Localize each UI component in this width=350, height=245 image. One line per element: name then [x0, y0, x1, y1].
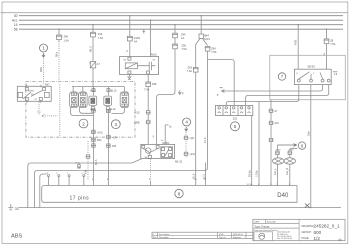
- inline connector K10/1: [147, 111, 150, 114]
- bus 30: [19, 15, 343, 17]
- relay Re10 capacitor: [138, 62, 156, 70]
- wire dotted below fuse Z96: [58, 42, 61, 137]
- wire comb to D40 pin 4: [258, 102, 260, 182]
- inline connector Q6: [184, 136, 187, 139]
- svg-text:9/1.5: 9/1.5: [88, 46, 92, 52]
- svg-text:+D50: +D50: [275, 150, 281, 152]
- svg-text:3: 3: [115, 122, 118, 127]
- lamp D60: [284, 158, 295, 164]
- relay K7 pin squares top: [25, 88, 28, 91]
- svg-text:30: 30: [14, 14, 18, 18]
- svg-text:Fax +31 412 66 90: Fax +31 412 66 90: [277, 238, 292, 240]
- svg-text:+D60: +D60: [288, 150, 294, 152]
- svg-text:Re8/1: Re8/1: [163, 141, 170, 145]
- reference arrow P at corner: [178, 90, 181, 94]
- relay Re10 coil: [125, 63, 137, 69]
- title block outer box: [253, 219, 345, 240]
- fuse Z56: [173, 44, 178, 49]
- svg-text:ABS: ABS: [11, 234, 22, 240]
- bulb EL4: [92, 89, 95, 92]
- svg-text:Z56: Z56: [181, 44, 186, 48]
- relay K7 pin stubs: [27, 85, 41, 103]
- svg-text:First release: First release: [159, 233, 169, 236]
- junction dot ground bus: [310, 207, 311, 208]
- inline connector 240B: [147, 120, 150, 123]
- svg-text:7.5A: 7.5A: [187, 69, 193, 73]
- svg-text:GROUP:: GROUP:: [302, 230, 313, 234]
- svg-text:232: 232: [233, 116, 238, 120]
- fuse Z36: [147, 74, 149, 82]
- svg-text:Replaces: Replaces: [233, 237, 241, 239]
- svg-text:87: 87: [35, 99, 38, 101]
- svg-text:17 pins: 17 pins: [70, 195, 90, 201]
- svg-text:15: 15: [14, 23, 18, 27]
- inline connector A7b: [269, 109, 272, 112]
- svg-text:2: 2: [82, 121, 85, 126]
- svg-text:+EL10: +EL10: [110, 89, 118, 92]
- node 2 (circled): [79, 119, 88, 128]
- module box (control unit): [141, 144, 175, 158]
- relay Re10 bottom pin squares: [128, 71, 131, 74]
- wire lamp D60 to D40 pin 3: [289, 164, 291, 181]
- title block row line 1: [253, 223, 299, 225]
- small terminal symbol above pin C: [78, 164, 81, 167]
- wire bus15 to switch SK33: [297, 25, 299, 69]
- wire EL10 down: [107, 110, 109, 181]
- relay Re10 ground arrow: [128, 75, 132, 80]
- bus 58: [19, 28, 343, 30]
- switch SK33: [294, 69, 331, 84]
- svg-text:1/0.5s: 1/0.5s: [256, 170, 259, 177]
- harness terminal pins left group: [48, 175, 290, 186]
- relay K7 side connector squares: [18, 92, 23, 97]
- svg-text:Acc: Acc: [12, 19, 18, 23]
- wire Z63 to pin 10: [195, 72, 197, 181]
- relay group dash-dot enclosure: [26, 81, 135, 137]
- svg-text:Z36: Z36: [152, 82, 157, 86]
- svg-text:Cas_L: Cas_L: [275, 168, 277, 175]
- svg-text:PAGE:: PAGE:: [302, 236, 310, 240]
- bulb EL10: [107, 89, 110, 92]
- connector EL4/2: [79, 92, 88, 108]
- arrow below node 4: [185, 127, 188, 131]
- svg-text:+244: +244: [189, 153, 195, 156]
- relay Re8/1: [161, 147, 173, 158]
- svg-text:7: 7: [281, 74, 284, 79]
- svg-text:Z44: Z44: [181, 32, 186, 36]
- svg-text:31: 31: [15, 207, 19, 211]
- revision table column lines: [158, 232, 247, 238]
- junction dots on buses: [58, 29, 59, 30]
- dotted reference arrow horizontal: [42, 115, 58, 118]
- svg-text:B4A: B4A: [97, 139, 102, 142]
- fuse Z63: [195, 45, 197, 68]
- bus 15: [19, 24, 343, 26]
- svg-text:M1.5: M1.5: [204, 37, 210, 41]
- svg-text:240B: 240B: [134, 121, 140, 124]
- svg-text:+EL4: +EL4: [90, 89, 96, 92]
- svg-text:Re7: Re7: [45, 84, 50, 87]
- svg-text:P: P: [182, 93, 184, 96]
- svg-text:Z8: Z8: [330, 38, 334, 42]
- svg-text:600: 600: [314, 230, 322, 235]
- revision table box: [152, 232, 253, 238]
- ground bus wire: [19, 207, 342, 209]
- dotted branch wire x88: [87, 141, 89, 180]
- relay Re10: [120, 57, 159, 75]
- svg-text:Z63: Z63: [188, 65, 193, 69]
- wire from fuse Z33: [92, 39, 94, 62]
- svg-text:4A: 4A: [134, 39, 137, 43]
- inline connector K10: [92, 130, 95, 133]
- inline connector B4A: [92, 138, 95, 141]
- svg-text:5: 5: [234, 124, 237, 129]
- svg-text:D40: D40: [277, 193, 289, 199]
- cable bundle outline (17 pins harness): [42, 186, 297, 203]
- node 1 (circled): [40, 44, 48, 52]
- svg-text:Z96: Z96: [64, 35, 69, 39]
- switch group enclosure: [270, 55, 346, 99]
- svg-text:Z66: Z66: [112, 145, 117, 148]
- comb pin clips: [218, 107, 220, 109]
- dotted wire module to pin: [150, 159, 152, 181]
- svg-text:7.5A: 7.5A: [330, 42, 336, 46]
- wire from A7 to lamp feed: [92, 68, 94, 87]
- inline connector B20: [269, 138, 272, 141]
- svg-text:P: P: [217, 94, 219, 97]
- title block divider vertical: [298, 219, 300, 240]
- wire SK33 pin to comb right: [220, 85, 323, 93]
- wire Z36 down to module: [147, 87, 149, 145]
- inline connector A10: [269, 121, 272, 124]
- svg-text:2013-05-12: 2013-05-12: [233, 234, 243, 236]
- svg-text:+Q6: +Q6: [189, 137, 194, 140]
- svg-text:P/S1: P/S1: [294, 39, 298, 45]
- lamp feed stubs: [73, 87, 124, 96]
- splitter B44 branch diagonals: [196, 38, 208, 45]
- diode module A7: [90, 62, 95, 68]
- svg-text:+C6: +C6: [112, 137, 117, 140]
- svg-text:4: 4: [185, 120, 188, 125]
- arrow below node 1: [42, 53, 45, 57]
- bus Acc: [19, 19, 343, 21]
- inline connector C6: [107, 135, 110, 138]
- fuse Z64: [205, 47, 210, 52]
- arrow to node 6: [277, 144, 296, 147]
- svg-text:A10: A10: [274, 122, 279, 125]
- wire comb to D40 pin 12: [246, 85, 329, 181]
- relay K7 (left relay block): [17, 86, 51, 101]
- lamp D50 connector: [276, 151, 279, 154]
- splitter B44: [200, 16, 202, 34]
- wire module to left return: [28, 159, 142, 208]
- svg-text:Z33: Z33: [98, 32, 103, 36]
- svg-text:1,2,14: 1,2,14: [247, 184, 254, 186]
- svg-text:9/9a: 9/9a: [39, 66, 43, 72]
- svg-text:Description: Description: [159, 236, 168, 239]
- inline connector on EL4 wire: [92, 109, 95, 112]
- SK33 internal pins: [297, 79, 300, 82]
- relay Re10 top pin squares: [128, 57, 131, 60]
- svg-text:Z64: Z64: [211, 47, 216, 51]
- left margin tick: [1, 12, 5, 14]
- svg-text:DATE: DATE: [254, 221, 260, 224]
- svg-text:SK33: SK33: [308, 64, 316, 68]
- svg-text:1A: 1A: [181, 36, 184, 40]
- wires EL4 connectors down to bulb wire: [70, 108, 93, 116]
- svg-text:7.5A: 7.5A: [181, 47, 187, 51]
- svg-text:Z104: Z104: [134, 36, 140, 40]
- svg-text:A23-2366: A23-2366: [267, 221, 277, 224]
- relay K7 dotted pin arrow down: [38, 102, 41, 114]
- wire EL10/2 down: [111, 108, 124, 114]
- svg-text:7.5A: 7.5A: [98, 36, 104, 40]
- svg-text:8: 8: [178, 191, 181, 196]
- svg-text:9/1.5: 9/1.5: [95, 159, 98, 165]
- svg-text:S: S: [125, 50, 129, 52]
- wire lamp D60 up: [290, 148, 298, 158]
- svg-text:1: 1: [153, 234, 154, 236]
- title block row line 2: [253, 227, 299, 229]
- node 7 (circled): [278, 73, 285, 80]
- svg-text:+K10: +K10: [134, 112, 140, 115]
- svg-text:9: 9: [153, 136, 155, 139]
- inline connector extra on EL4 wire: [92, 144, 95, 147]
- svg-text:Type: Futura: Type: Futura: [254, 224, 270, 228]
- wire bus30 to fuse Z104: [129, 16, 131, 57]
- merge funnel with transistor: [143, 148, 158, 155]
- node 3 (circled): [111, 120, 120, 129]
- module stub pin 3x: [165, 125, 168, 144]
- fuse Z44: [174, 25, 176, 34]
- inner top margin line: [2, 12, 348, 14]
- connector EL4/1: [70, 92, 79, 108]
- wire pin 9: [205, 163, 207, 182]
- fuse Z8: [326, 29, 328, 39]
- revision table mid line: [152, 234, 253, 236]
- ground symbol 31: [8, 204, 13, 211]
- module top pin squares: [142, 145, 145, 148]
- wire busAcc to relay Re10: [143, 20, 151, 56]
- svg-text:7.4A: 7.4A: [144, 88, 150, 92]
- svg-text:11: 11: [204, 179, 207, 181]
- fuse Z104: [127, 36, 132, 41]
- svg-text:2/6s: 2/6s: [307, 131, 310, 136]
- lamp D60 connector: [288, 151, 291, 154]
- svg-text:Power train electrical Parts b: Power train electrical Parts bv: [254, 229, 278, 232]
- comb connector strip: [216, 105, 253, 115]
- inline connector B44b: [184, 152, 187, 155]
- junction dot lamp feed: [92, 86, 93, 87]
- connector EL10/2: [120, 92, 129, 108]
- dotted wire from node 4: [185, 132, 187, 159]
- fuse Z96: [58, 29, 60, 35]
- logo box: [254, 232, 273, 241]
- wire return to terminal: [40, 174, 47, 208]
- svg-text:1/2: 1/2: [314, 236, 321, 241]
- logo emblem: [259, 233, 265, 239]
- relay K7 pin squares bottom: [25, 97, 28, 100]
- svg-text:M1/12: M1/12: [175, 159, 183, 163]
- svg-text:1-9: 1-9: [334, 73, 338, 76]
- svg-text:a3: a3: [339, 238, 343, 242]
- svg-text:Proj. no: Proj. no: [219, 236, 226, 239]
- svg-text:9/0.5a: 9/0.5a: [248, 170, 251, 177]
- wire SK33 pin to comb left: [226, 85, 299, 106]
- relay K7 contact diagonals: [23, 91, 43, 99]
- svg-text:B44: B44: [204, 34, 209, 38]
- svg-text:Re10: Re10: [151, 54, 157, 57]
- wire dotted from node 1: [43, 59, 45, 85]
- svg-text:9/1a: 9/1a: [54, 51, 58, 57]
- wire EL4 down to connector D40: [92, 110, 94, 181]
- lamp D50: [273, 158, 284, 164]
- wire lamp D50 to D40 pin 1: [276, 164, 278, 181]
- wire Z64 across to comb connector: [208, 51, 235, 105]
- svg-text:Cas_R: Cas_R: [287, 168, 289, 175]
- svg-text:1.6A: 1.6A: [64, 39, 70, 43]
- node 5 (circled): [231, 122, 240, 131]
- wire enclosure down to D40 pin 5: [270, 100, 272, 181]
- svg-text:10: 10: [194, 179, 197, 181]
- node 8 (circled): [175, 189, 183, 197]
- lamp feed wire horizontal: [72, 86, 125, 88]
- svg-text:58: 58: [14, 28, 18, 32]
- svg-text:2/1.5: 2/1.5: [204, 137, 207, 143]
- node 4 (circled): [183, 118, 191, 126]
- wire Z56 down and left into module: [157, 49, 175, 145]
- svg-text:6: 6: [301, 143, 304, 148]
- fuse Z66: [107, 144, 110, 147]
- svg-text:3x: 3x: [169, 126, 172, 129]
- junction X on ground bus: [305, 203, 310, 207]
- svg-text:5/8s: 5/8s: [86, 169, 88, 174]
- wire lamp D50 up: [276, 145, 278, 158]
- svg-text:245282_0_1: 245282_0_1: [314, 224, 340, 229]
- fuse Z33: [92, 25, 94, 33]
- svg-text:0708: 0708: [219, 234, 223, 236]
- SK33 switch contact: [299, 72, 323, 79]
- svg-text:A7: A7: [274, 110, 278, 113]
- svg-text:A7: A7: [97, 62, 101, 66]
- svg-text:5mm: 5mm: [76, 163, 81, 165]
- svg-text:1: 1: [42, 46, 45, 51]
- wire Z64 return line down to ground corner: [35, 60, 208, 208]
- wire Z8 to SK33: [326, 44, 328, 69]
- node 6 (circled): [298, 142, 305, 149]
- svg-text:Rev: Rev: [153, 237, 156, 239]
- inline connector on EL10 wire: [107, 109, 110, 112]
- wire SK33 long down to ground: [310, 85, 312, 208]
- svg-text:+K10: +K10: [97, 131, 103, 134]
- svg-text:7.5A: 7.5A: [211, 50, 217, 54]
